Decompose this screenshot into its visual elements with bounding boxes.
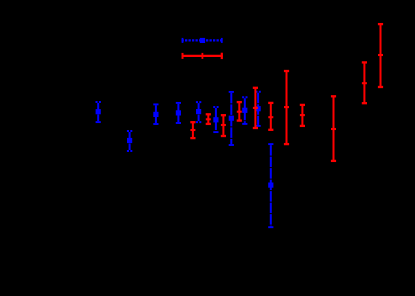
blue data point B2: dashed error bar with square marker bbox=[127, 131, 132, 151]
red data point R11: solid error bar with tick marker bbox=[378, 24, 383, 87]
legend blue series sample: dashed line with square marker bbox=[182, 38, 223, 43]
blue data point B5: dashed error bar with square marker bbox=[196, 102, 201, 122]
blue data point B10: dashed error bar with square marker bbox=[268, 144, 273, 227]
blue data point B1: dashed error bar with square marker bbox=[96, 102, 101, 122]
red data point R7: solid error bar with tick marker bbox=[284, 71, 289, 144]
red data point R6: solid error bar with tick marker bbox=[268, 103, 273, 130]
blue data point B4: dashed error bar with square marker bbox=[176, 103, 181, 123]
red data point R4: solid error bar with tick marker bbox=[237, 102, 242, 121]
legend red series sample: errorbar line bbox=[182, 53, 223, 59]
red data point R1: solid error bar with tick marker bbox=[190, 122, 195, 138]
blue data point B7: dashed error bar with square marker bbox=[229, 92, 234, 145]
blue data point B6: dashed error bar with square marker bbox=[213, 107, 218, 132]
red data point R3: solid error bar with tick marker bbox=[221, 115, 226, 136]
red data point R5: solid error bar with tick marker bbox=[253, 88, 258, 128]
red data point R8: solid error bar with tick marker bbox=[300, 105, 305, 126]
blue data point B8: dashed error bar with square marker bbox=[242, 97, 247, 124]
blue data point B3: dashed error bar with square marker bbox=[153, 104, 158, 124]
blue data point B9: dashed error bar with square marker bbox=[255, 92, 260, 126]
red data point R2: solid error bar with tick marker bbox=[206, 114, 211, 124]
red data point R9: solid error bar with tick marker bbox=[331, 96, 336, 161]
red data point R10: solid error bar with tick marker bbox=[362, 62, 367, 103]
